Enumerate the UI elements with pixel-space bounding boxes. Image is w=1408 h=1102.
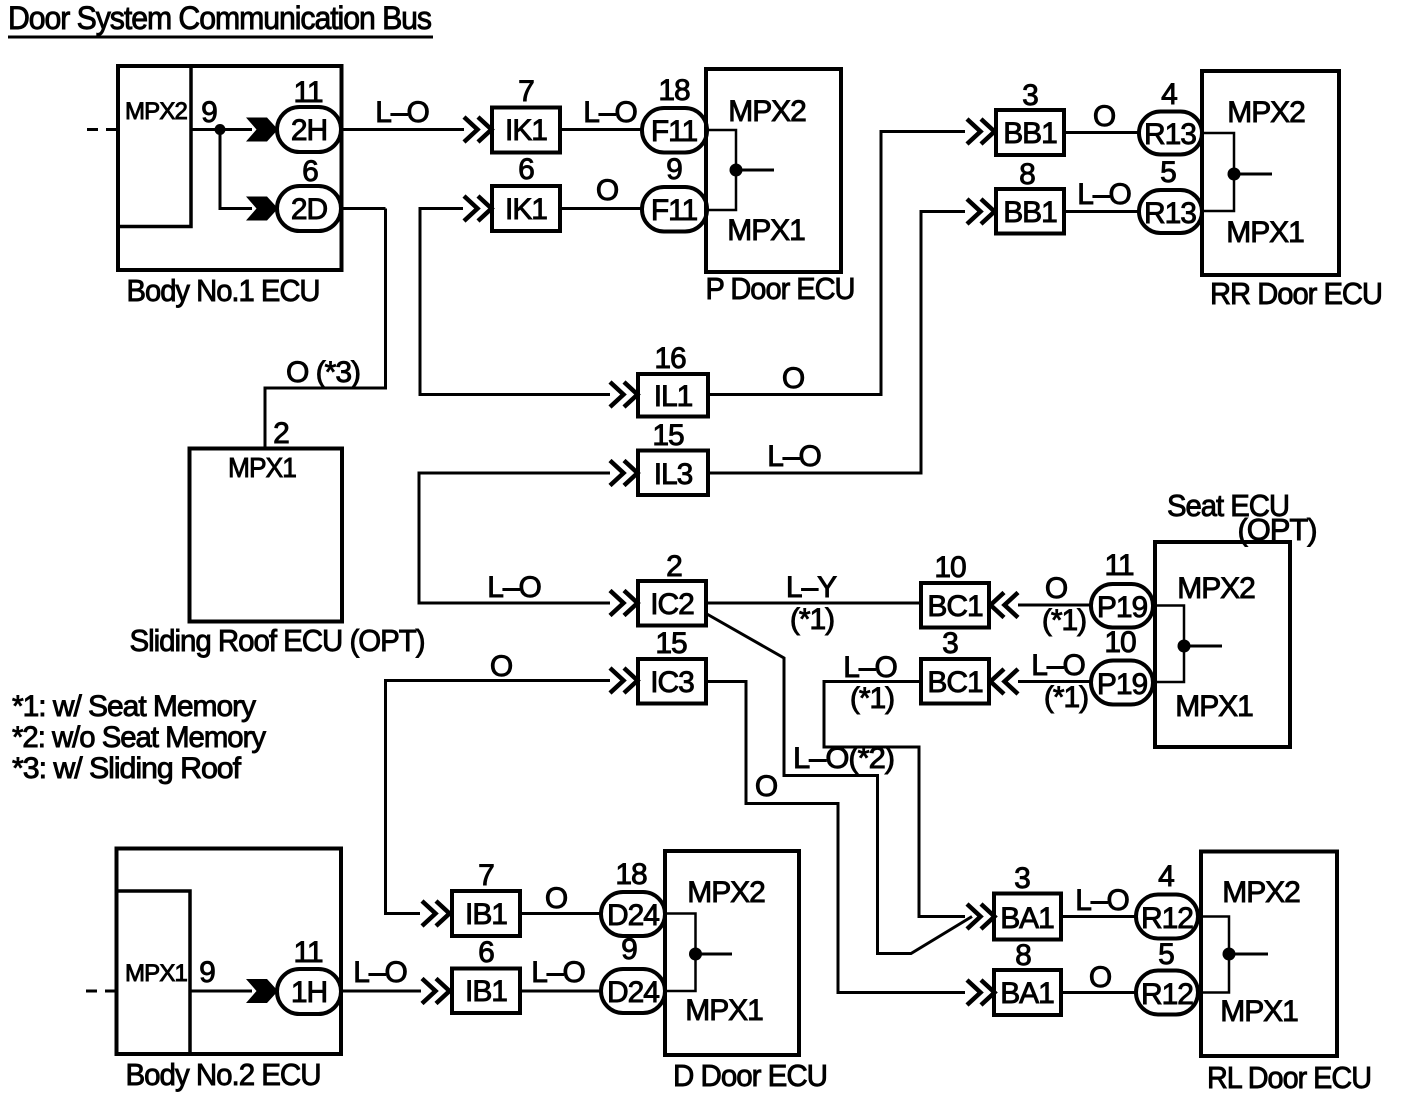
svg-text:8: 8 — [1019, 158, 1035, 191]
svg-text:MPX2: MPX2 — [728, 95, 806, 128]
connector BC1 pin 3 — [921, 627, 989, 704]
svg-text:L–O: L–O — [375, 96, 429, 129]
oval terminal F11 pin 9 — [642, 153, 707, 232]
connector IB1 pin 6 — [452, 936, 520, 1013]
internal bracket RL Door — [1203, 917, 1268, 993]
svg-text:BC1: BC1 — [927, 666, 983, 699]
svg-text:Body No.2 ECU: Body No.2 ECU — [126, 1057, 321, 1092]
connector BB1 pin 8 — [996, 158, 1064, 234]
chevron arrows into IL3 — [610, 461, 638, 486]
svg-text:BA1: BA1 — [1000, 902, 1054, 935]
svg-text:L–O: L–O — [767, 440, 821, 473]
svg-text:4: 4 — [1161, 78, 1177, 111]
chevron arrows into BC1 pin10 — [991, 593, 1019, 618]
title: Door System Communication Bus — [8, 0, 433, 37]
svg-text:MPX2: MPX2 — [1177, 572, 1255, 605]
svg-text:7: 7 — [478, 859, 494, 892]
connector BC1 pin 10 — [921, 551, 989, 628]
wire IC2 to BC1 pin10 — [706, 602, 921, 605]
svg-text:D24: D24 — [607, 899, 659, 932]
svg-text:MPX1: MPX1 — [228, 452, 296, 483]
internal bracket RR Door — [1204, 133, 1272, 211]
ECU block RL Door ECU — [1201, 852, 1337, 1057]
arrowhead into 2H — [246, 118, 278, 142]
oval terminal R13 pin 4 — [1139, 78, 1202, 155]
wire IK1 to F11 row2 — [560, 207, 643, 210]
svg-text:3: 3 — [1022, 79, 1038, 112]
wire IL1 up to BB1 pin3 — [708, 132, 965, 395]
arrowhead into 1H — [246, 979, 278, 1003]
svg-text:D Door ECU: D Door ECU — [673, 1058, 827, 1093]
svg-text:O: O — [782, 362, 804, 395]
svg-text:11: 11 — [293, 76, 322, 109]
ECU block Body No.1 ECU — [118, 66, 342, 270]
svg-text:MPX2: MPX2 — [125, 98, 187, 125]
svg-text:F11: F11 — [651, 194, 698, 227]
svg-text:IK1: IK1 — [505, 114, 547, 147]
svg-text:IB1: IB1 — [465, 975, 507, 1008]
svg-text:L–O: L–O — [1075, 884, 1129, 917]
chevron arrows into IK1 pin7 — [464, 117, 492, 142]
svg-text:L–Y: L–Y — [786, 571, 837, 604]
svg-text:MPX2: MPX2 — [1222, 876, 1300, 909]
svg-text:D24: D24 — [607, 976, 659, 1009]
svg-text:L–O: L–O — [487, 571, 541, 604]
connector IC2 pin 2 — [638, 550, 706, 626]
connector IL1 pin 16 — [638, 342, 708, 417]
svg-text:P Door ECU: P Door ECU — [706, 271, 855, 306]
svg-text:IC3: IC3 — [650, 666, 694, 699]
svg-text:O: O — [1089, 961, 1111, 994]
svg-text:1H: 1H — [291, 976, 327, 1009]
svg-text:MPX1: MPX1 — [727, 214, 805, 247]
svg-text:IL1: IL1 — [654, 380, 693, 413]
wire BA1 to R12 pin4 — [1061, 915, 1137, 918]
connector BB1 pin 3 — [996, 79, 1064, 155]
oval terminal R12 pin 5 — [1136, 938, 1198, 1015]
svg-text:O: O — [755, 770, 777, 803]
ECU block Seat ECU (OPT) — [1155, 488, 1317, 747]
svg-text:9: 9 — [666, 153, 682, 186]
wire P19 to BC1 pin3 — [1018, 680, 1092, 683]
wire 2D down to sliding roof — [265, 209, 386, 450]
svg-text:7: 7 — [518, 75, 534, 108]
svg-text:L–O: L–O — [843, 651, 897, 684]
wire BB1 to R13 — [1064, 131, 1140, 134]
svg-text:3: 3 — [1014, 862, 1030, 895]
chevron arrows into BA1 pin8 — [967, 980, 995, 1005]
wire IK1 to F11 — [560, 128, 643, 131]
wire net into IK1 pin6 and IL1 — [420, 209, 610, 395]
svg-text:F11: F11 — [651, 115, 698, 148]
svg-text:P19: P19 — [1097, 591, 1148, 624]
svg-text:9: 9 — [621, 933, 637, 966]
junction node dot — [215, 124, 226, 135]
svg-text:MPX1: MPX1 — [1220, 995, 1298, 1028]
svg-text:Door System Communication Bus: Door System Communication Bus — [8, 0, 431, 36]
svg-text:18: 18 — [658, 74, 690, 107]
connector IK1 pin 7 — [492, 75, 560, 153]
connector BA1 pin 8 — [994, 939, 1061, 1015]
svg-text:15: 15 — [655, 627, 687, 660]
wire P19 to BC1 pin10 — [1018, 604, 1092, 607]
svg-text:MPX1: MPX1 — [685, 994, 763, 1027]
wire 2D to corner — [341, 207, 386, 210]
oval terminal 2H pin 11 — [277, 76, 341, 152]
svg-text:BB1: BB1 — [1003, 196, 1057, 229]
svg-text:6: 6 — [302, 155, 318, 188]
svg-text:RL Door ECU: RL Door ECU — [1207, 1060, 1371, 1095]
svg-text:Sliding Roof ECU (OPT): Sliding Roof ECU (OPT) — [130, 623, 425, 658]
svg-text:*2: w/o Seat Memory: *2: w/o Seat Memory — [12, 721, 266, 754]
svg-text:18: 18 — [615, 858, 647, 891]
connector IK1 pin 6 — [492, 153, 560, 231]
oval terminal 2D pin 6 — [277, 155, 341, 231]
svg-text:O: O — [1045, 572, 1067, 605]
svg-text:O: O — [545, 882, 567, 915]
ECU block P Door ECU — [706, 69, 841, 272]
connector IC3 pin 15 — [638, 627, 706, 704]
svg-text:2D: 2D — [291, 193, 328, 226]
svg-text:L–O: L–O — [531, 956, 585, 989]
svg-text:IK1: IK1 — [505, 193, 547, 226]
wire net IL3 input down to IC2 input — [419, 473, 610, 603]
svg-text:6: 6 — [478, 936, 494, 969]
svg-text:15: 15 — [652, 419, 684, 452]
svg-text:4: 4 — [1158, 860, 1174, 893]
inner block MPX2 of Body No.1 ECU — [118, 66, 191, 227]
svg-text:3: 3 — [942, 627, 958, 660]
wire junction down to 2D — [220, 130, 252, 209]
svg-text:O: O — [596, 174, 618, 207]
svg-text:BB1: BB1 — [1003, 117, 1057, 150]
internal bracket Seat ECU — [1157, 606, 1222, 683]
svg-text:2: 2 — [273, 417, 289, 450]
svg-text:O: O — [1093, 100, 1115, 133]
svg-text:(*1): (*1) — [1042, 604, 1086, 637]
oval terminal P19 pin 11 — [1091, 549, 1153, 628]
oval terminal D24 pin 18 — [601, 858, 665, 936]
svg-text:P19: P19 — [1097, 668, 1148, 701]
svg-text:11: 11 — [293, 936, 322, 969]
svg-text:MPX2: MPX2 — [1227, 96, 1305, 129]
svg-text:11: 11 — [1104, 549, 1133, 582]
wire BA1 to R12 pin5 — [1061, 991, 1137, 994]
svg-text:MPX2: MPX2 — [687, 876, 765, 909]
svg-text:O: O — [490, 650, 512, 683]
diagonal wire IC2 to BA1 pin3 (w/o seat memory) — [706, 614, 972, 954]
svg-text:MPX1: MPX1 — [1175, 690, 1253, 723]
svg-text:O (*3): O (*3) — [286, 356, 360, 389]
svg-text:2H: 2H — [291, 114, 327, 147]
chevron arrows into IB1 pin7 — [422, 901, 450, 926]
wire 1H to IB1 pin6 — [341, 990, 421, 993]
ECU block RR Door ECU — [1202, 71, 1339, 275]
chevron arrows into IK1 pin6 — [464, 196, 492, 221]
svg-text:R13: R13 — [1144, 118, 1196, 151]
svg-text:16: 16 — [654, 342, 686, 375]
oval terminal R13 pin 5 — [1139, 156, 1202, 233]
svg-text:BA1: BA1 — [1000, 977, 1054, 1010]
svg-text:IL3: IL3 — [654, 458, 693, 491]
wire 2H to IK1 — [341, 128, 464, 131]
svg-text:(*1): (*1) — [790, 603, 834, 636]
svg-text:2: 2 — [666, 550, 682, 583]
wire net IC3 input and IB1 pin7 — [386, 681, 611, 914]
oval terminal P19 pin 10 — [1091, 626, 1153, 705]
chevron arrows into BA1 pin3 — [967, 904, 995, 929]
ECU block D Door ECU — [665, 851, 799, 1055]
dashed stub into Body No.1 ECU — [87, 128, 117, 131]
svg-text:BC1: BC1 — [927, 590, 983, 623]
svg-text:L–O: L–O — [583, 96, 637, 129]
chevron arrows into BB1 pin3 — [967, 119, 995, 144]
svg-text:IC2: IC2 — [650, 588, 694, 621]
inner block MPX1 of Body No.2 ECU — [118, 891, 190, 1052]
svg-text:MPX1: MPX1 — [125, 960, 187, 987]
svg-text:6: 6 — [518, 153, 534, 186]
svg-text:10: 10 — [934, 551, 966, 584]
svg-text:9: 9 — [199, 956, 215, 989]
svg-text:R13: R13 — [1144, 197, 1196, 230]
wire IC3 to BA1 pin8 — [706, 682, 965, 993]
svg-text:RR Door ECU: RR Door ECU — [1210, 276, 1382, 311]
svg-text:5: 5 — [1158, 938, 1174, 971]
wire BB1 to R13 row2 — [1064, 210, 1140, 213]
svg-text:L–O: L–O — [353, 956, 407, 989]
chevron arrows into BB1 pin8 — [967, 199, 995, 224]
ECU block Body No.2 ECU — [117, 849, 342, 1055]
oval terminal R12 pin 4 — [1136, 860, 1198, 939]
oval terminal D24 pin 9 — [601, 933, 665, 1013]
wire MPX1 pin9 to 1H — [190, 990, 252, 993]
chevron arrows into IL1 — [610, 382, 638, 407]
connector IL3 pin 15 — [638, 419, 708, 495]
chevron arrows into BC1 pin3 — [991, 669, 1019, 694]
dashed stub into Body No.2 ECU — [86, 990, 116, 993]
oval terminal 1H pin 11 — [277, 936, 341, 1014]
wire IB1 to D24 pin18 — [520, 912, 602, 915]
connector IB1 pin 7 — [452, 859, 520, 936]
svg-text:R12: R12 — [1141, 978, 1193, 1011]
internal bracket D Door — [667, 914, 732, 992]
svg-text:Body No.1 ECU: Body No.1 ECU — [127, 273, 320, 308]
svg-text:IB1: IB1 — [465, 898, 507, 931]
svg-text:9: 9 — [201, 96, 217, 129]
svg-text:10: 10 — [1104, 626, 1136, 659]
oval terminal F11 pin 18 — [642, 74, 707, 153]
chevron arrows into IB1 pin6 — [422, 979, 450, 1004]
svg-text:*1: w/ Seat Memory: *1: w/ Seat Memory — [12, 690, 256, 723]
chevron arrows into IC2 — [610, 591, 638, 616]
svg-text:L–O: L–O — [1077, 178, 1131, 211]
internal bracket P Door — [708, 130, 774, 210]
svg-text:(*1): (*1) — [1044, 681, 1088, 714]
svg-text:5: 5 — [1160, 156, 1176, 189]
svg-text:MPX1: MPX1 — [1226, 216, 1304, 249]
wire MPX2 pin9 to 2H — [191, 128, 252, 131]
wire BC1 pin3 to BA1 pin3 — [824, 682, 965, 917]
wire IL3 up to BB1 pin8 — [708, 212, 965, 474]
wire IB1 to D24 pin9 — [520, 990, 602, 993]
ECU block Sliding Roof ECU (OPT) — [130, 417, 425, 658]
connector BA1 pin 3 — [994, 862, 1061, 940]
svg-text:8: 8 — [1015, 939, 1031, 972]
svg-text:*3: w/ Sliding Roof: *3: w/ Sliding Roof — [12, 752, 242, 785]
svg-text:R12: R12 — [1141, 902, 1193, 935]
svg-text:L–O: L–O — [1031, 649, 1085, 682]
chevron arrows into IC3 — [610, 668, 638, 693]
arrowhead into 2D — [246, 197, 278, 221]
svg-text:(*1): (*1) — [850, 682, 894, 715]
